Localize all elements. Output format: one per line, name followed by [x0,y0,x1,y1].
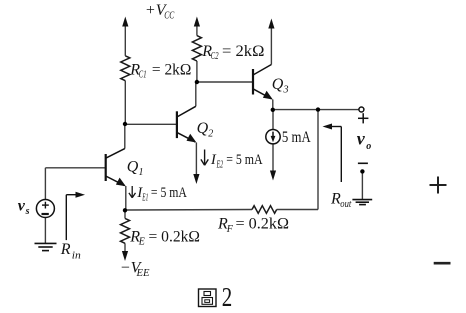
polarity - (right margin) [434,262,451,265]
VCC arrowhead (Q3 collector) [268,19,274,29]
svg-text:o: o [366,141,371,152]
svg-text:C1: C1 [139,70,147,81]
Rout measurement arrow [329,127,341,183]
svg-text:= 2kΩ: = 2kΩ [152,61,192,78]
node D junction dot [271,108,275,112]
svg-text:EE: EE [135,268,149,279]
label Q1 [127,158,144,178]
polarity + (right margin) [430,177,447,194]
wire: node B to RE [124,210,126,218]
svg-text:R: R [60,241,71,258]
wire: RC2 bottom to node C [196,61,198,82]
label RE = 0.2kOhm [129,229,200,248]
label - polarity at output [358,162,368,164]
svg-text:v: v [357,129,366,149]
wire: VCC supply arrow shaft (RC1 branch) [124,22,126,56]
label IE2 = 5 mA [201,150,263,171]
svg-text:= 0.2kΩ: = 0.2kΩ [149,229,201,246]
node B junction dot [123,208,127,212]
svg-text:E: E [138,237,145,248]
wire: node C to Q3 base [197,81,253,83]
wire: Q3 collector vertical to VCC arrow [270,26,272,65]
svg-text:Q: Q [197,120,209,137]
resistor RF [252,206,277,214]
resistor RE [121,218,130,243]
wire: RC1 bottom to node A [124,81,126,124]
label Rin [60,241,81,261]
wire: RE to -VEE arrow shaft [124,243,126,255]
caption glyph (figure character) [199,289,217,307]
wire: output minus lead to ground [361,171,363,199]
wire: Q1 emitter down to node B [125,186,127,210]
transistor Q2 [177,106,197,142]
wire: RF right segment [277,209,318,211]
wire: node D to output terminal [273,109,359,111]
svg-text:F: F [226,224,234,235]
label RC1 = 2kOhm [129,61,191,80]
transistor Q3 [253,65,273,100]
wire: node A to Q2 base [125,123,177,125]
ground (output, right) [352,200,372,205]
wire: RF left segment to node B [125,209,252,212]
wire: current source bottom lead (arrow shaft) [272,144,274,175]
svg-text:= 5 mA: = 5 mA [226,152,263,168]
transistor Q1 [106,149,126,187]
svg-text:in: in [72,250,81,261]
node F dot above output ground [360,169,364,173]
wire: Q1 base horizontal [45,167,105,169]
svg-text:3: 3 [283,85,289,96]
node E junction dot [316,107,320,111]
svg-text:= 2kΩ: = 2kΩ [222,43,265,60]
label + polarity at output [358,113,368,123]
svg-text:E2: E2 [216,159,223,170]
svg-text:1: 1 [139,167,144,178]
wire: current source top lead [272,110,274,130]
svg-text:Q: Q [272,76,284,93]
label Q2 [197,120,214,140]
svg-text:E1: E1 [142,193,149,204]
node C junction dot [195,80,199,84]
label Q3 [272,76,289,96]
svg-text:C2: C2 [211,51,219,62]
svg-text:2: 2 [222,282,233,312]
wire: Q3 emitter down to node D [272,100,274,111]
source vs circle [36,200,54,218]
label vo [357,129,371,152]
wire: Q1 collector vertical [124,124,126,149]
wire: vs bottom lead to ground [44,218,46,244]
current source I 5mA circle [266,130,280,144]
label IE1 = 5 mA [129,185,187,203]
wire: vs top lead [44,168,46,200]
output terminal (open circle) [359,107,364,112]
ground (below vs) [35,243,57,250]
Rin measurement arrow [66,195,78,240]
label +VCC [145,2,175,21]
wire: Q2 emitter down (current arrow shaft) [195,143,197,179]
resistor RC1 [121,56,130,81]
svg-text:CC: CC [164,10,174,21]
wire: Q2 collector vertical to node C [195,82,197,106]
svg-text:Q: Q [127,158,139,175]
svg-text:2: 2 [208,129,213,140]
wire: VCC supply arrow shaft (RC2 branch) [196,22,198,36]
label Rout [330,191,351,211]
svg-text:v: v [18,197,26,214]
current source tail arrowhead [270,171,276,181]
svg-text:s: s [25,206,30,217]
VCC arrowhead (RC1 branch) [122,17,128,27]
VCC arrowhead (RC2 branch) [194,17,200,27]
node A junction dot [123,122,127,126]
-VEE arrowhead below RE [122,251,128,261]
label RF = 0.2kOhm [217,216,289,235]
resistor RC2 [192,36,201,61]
svg-text:= 5 mA: = 5 mA [151,185,187,201]
wire: feedback vertical (node E down to RF) [317,110,319,210]
svg-text:= 0.2kΩ: = 0.2kΩ [236,216,290,233]
label vs [18,197,30,216]
label -VEE [120,260,150,279]
svg-text:5 mA: 5 mA [282,129,311,146]
svg-text:out: out [340,199,351,210]
current direction arrowhead below Q2 emitter [193,174,199,184]
label RC2 = 2kOhm [201,43,264,62]
